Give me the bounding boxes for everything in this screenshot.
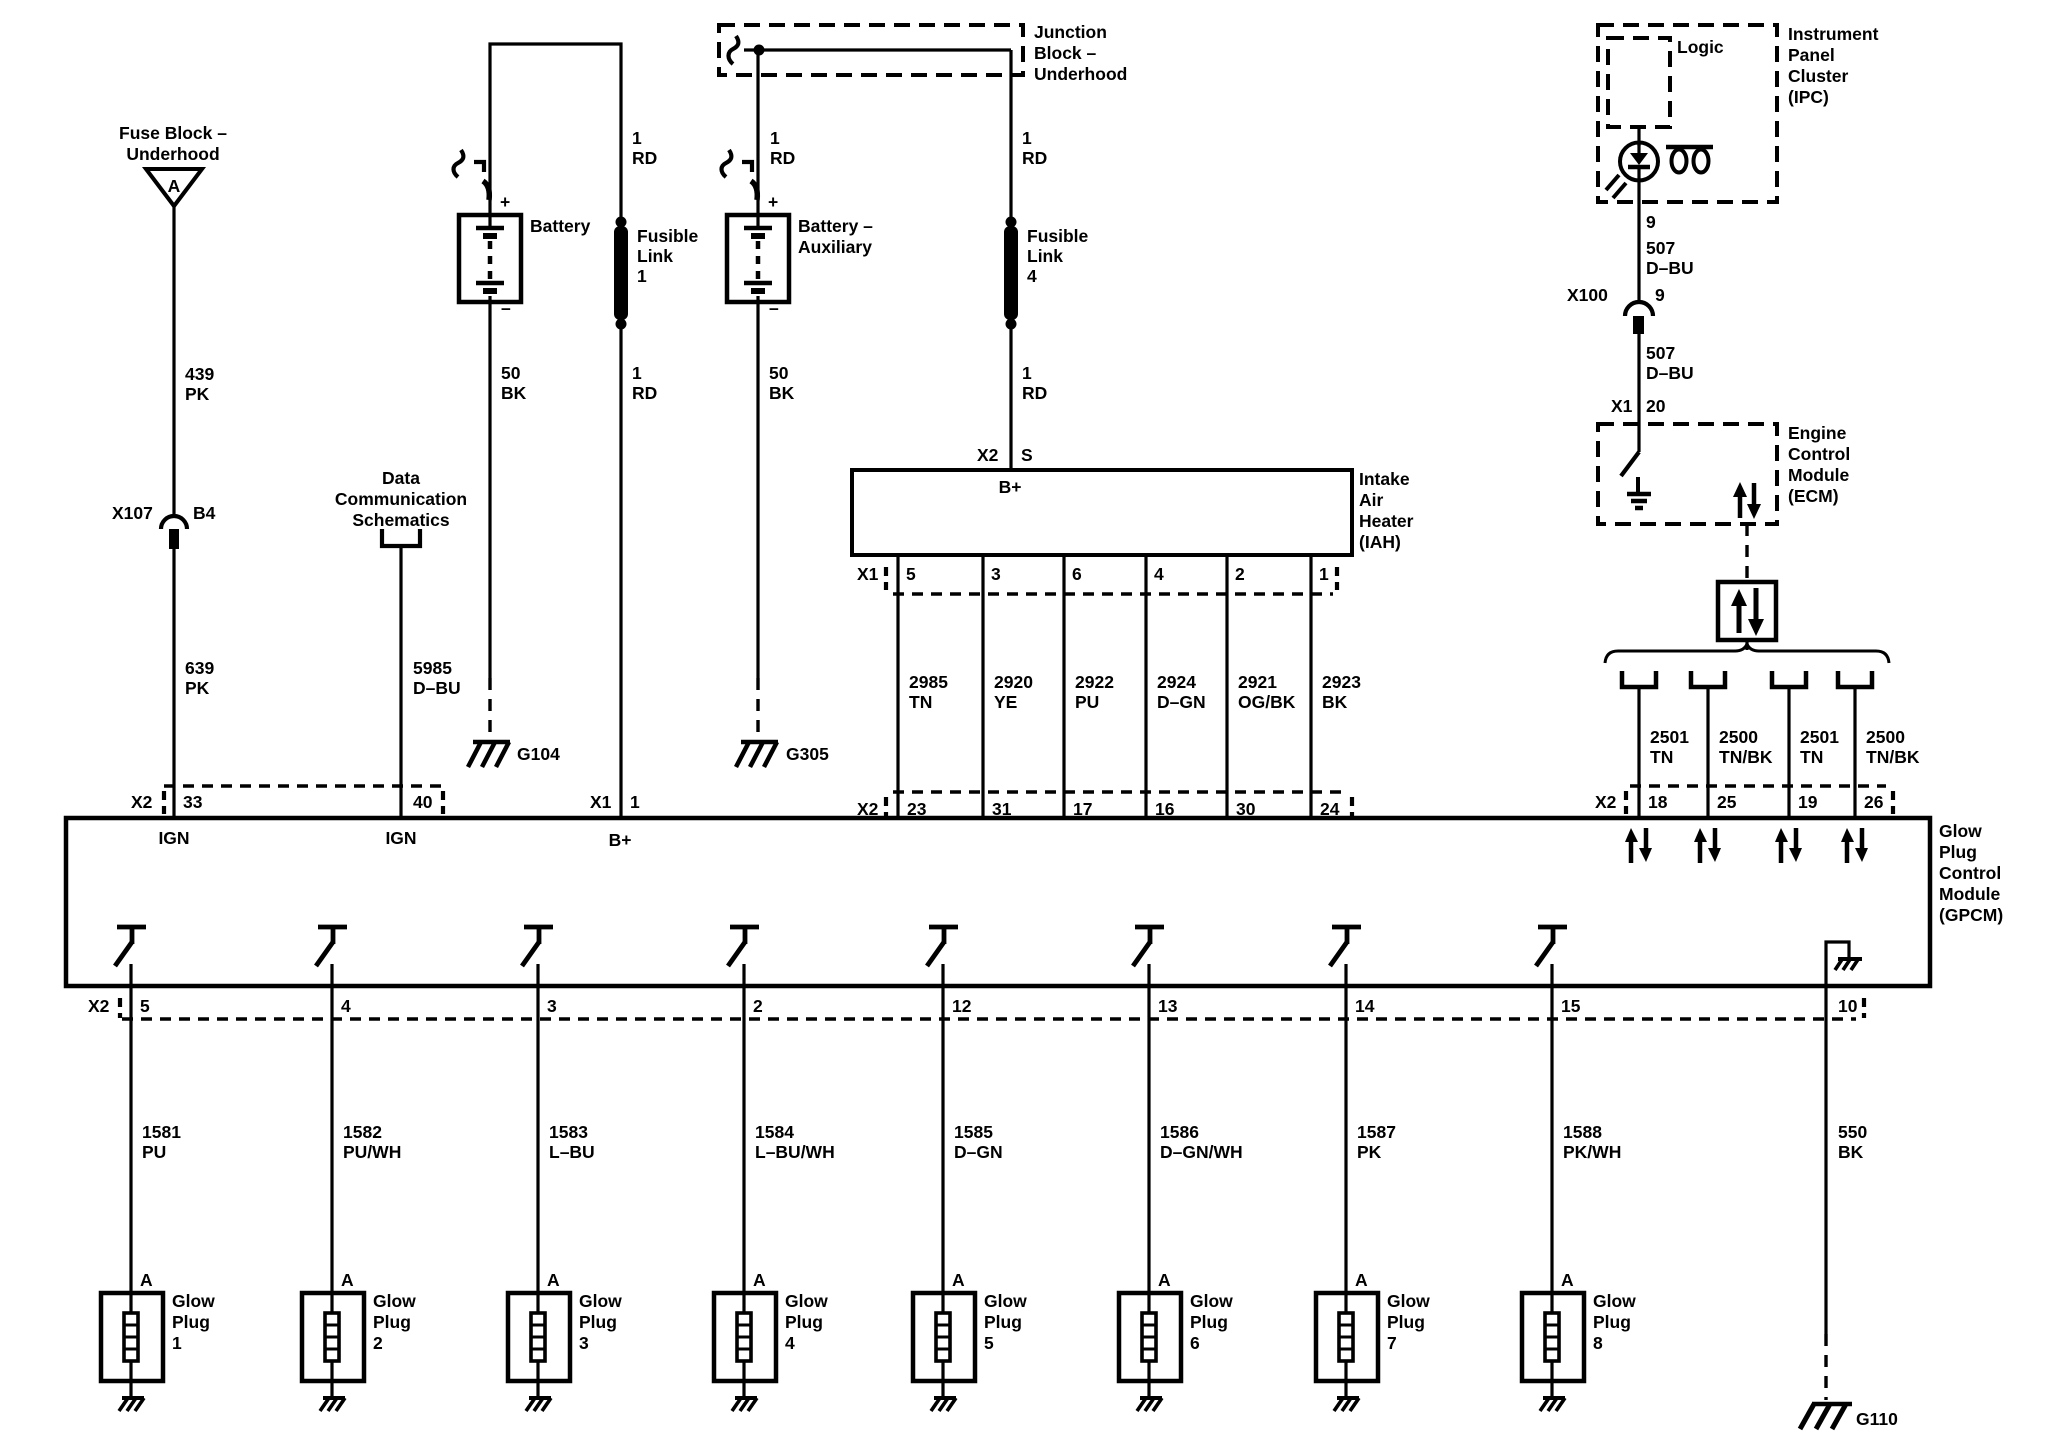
svg-text:PK: PK bbox=[185, 678, 210, 698]
serial data gateway box bbox=[1718, 582, 1776, 640]
svg-text:G104: G104 bbox=[517, 744, 560, 764]
svg-text:1: 1 bbox=[637, 266, 647, 286]
label 2500 TN/BK bbox=[1866, 727, 1920, 767]
wire 50 BK battery auxiliary negative to G305 bbox=[756, 296, 759, 739]
svg-text:5: 5 bbox=[140, 996, 150, 1016]
dashed serial data wire ECM to gateway bbox=[1745, 524, 1748, 582]
svg-text:3: 3 bbox=[547, 996, 557, 1016]
wire 2500 TN/BK to GPCM pin 26 bbox=[1853, 689, 1856, 818]
svg-text:Underhood: Underhood bbox=[1034, 64, 1127, 84]
svg-text:X107: X107 bbox=[112, 503, 153, 523]
connector terminal (serial data branch 3) bbox=[1772, 671, 1806, 687]
label Fusible Link 1 bbox=[637, 226, 699, 286]
lamp coil symbol bbox=[1666, 147, 1713, 173]
svg-text:A: A bbox=[1561, 1270, 1574, 1290]
svg-text:Glow: Glow bbox=[172, 1291, 215, 1311]
wire 2923 BK from IAH pin 1 to GPCM pin 24 bbox=[1309, 555, 1312, 818]
svg-text:D–GN: D–GN bbox=[954, 1142, 1003, 1162]
svg-text:Instrument: Instrument bbox=[1788, 24, 1879, 44]
wire 507 D-BU lamp to X100 bbox=[1637, 181, 1640, 303]
label 2501 TN bbox=[1650, 727, 1689, 767]
wire gateway to brace bbox=[1745, 640, 1748, 650]
label 1 RD (above fusible link 4) bbox=[1022, 128, 1047, 168]
switch (GPCM glow plug driver 4) bbox=[728, 927, 759, 986]
svg-text:B+: B+ bbox=[609, 830, 632, 850]
svg-text:S: S bbox=[1021, 445, 1033, 465]
svg-text:IGN: IGN bbox=[158, 828, 189, 848]
svg-text:Schematics: Schematics bbox=[352, 510, 450, 530]
svg-text:RD: RD bbox=[1022, 383, 1047, 403]
glow plug 2 bbox=[302, 1293, 364, 1397]
svg-text:13: 13 bbox=[1158, 996, 1178, 1016]
label 2920 YE bbox=[994, 672, 1033, 712]
svg-text:Link: Link bbox=[1027, 246, 1063, 266]
svg-text:20: 20 bbox=[1646, 396, 1666, 416]
svg-text:Plug: Plug bbox=[984, 1312, 1022, 1332]
wire 2501 TN to GPCM pin 19 bbox=[1787, 689, 1790, 818]
svg-text:X2: X2 bbox=[977, 445, 999, 465]
svg-text:18: 18 bbox=[1648, 792, 1668, 812]
label 1585 D–GN bbox=[954, 1122, 1003, 1162]
svg-text:YE: YE bbox=[994, 692, 1017, 712]
label 439 PK bbox=[185, 364, 214, 404]
svg-text:50: 50 bbox=[501, 363, 521, 383]
svg-text:7: 7 bbox=[1387, 1333, 1397, 1353]
svg-text:2924: 2924 bbox=[1157, 672, 1196, 692]
svg-text:1587: 1587 bbox=[1357, 1122, 1396, 1142]
engine control module ECM (dashed box) bbox=[1598, 424, 1777, 524]
label 50 BK bbox=[501, 363, 527, 403]
label Glow Plug 1 bbox=[172, 1291, 215, 1353]
svg-text:Control: Control bbox=[1788, 444, 1850, 464]
svg-text:Glow: Glow bbox=[1387, 1291, 1430, 1311]
svg-text:1: 1 bbox=[172, 1333, 182, 1353]
svg-text:550: 550 bbox=[1838, 1122, 1867, 1142]
fuse block label Fuse Block - Underhood bbox=[119, 123, 227, 164]
ground (glow plug 2) bbox=[320, 1398, 345, 1411]
label Engine Control Module (ECM) bbox=[1788, 423, 1850, 506]
label Glow Plug 3 bbox=[579, 1291, 622, 1353]
serial data arrows inside GPCM (pin 26) bbox=[1841, 828, 1868, 863]
svg-text:639: 639 bbox=[185, 658, 214, 678]
serial data arrows inside GPCM (pin 19) bbox=[1775, 828, 1802, 863]
battery auxiliary plates symbol bbox=[744, 228, 772, 291]
label Fusible Link 4 bbox=[1027, 226, 1089, 286]
svg-text:3: 3 bbox=[579, 1333, 589, 1353]
label 639 PK bbox=[185, 658, 214, 698]
battery B1 plates symbol bbox=[476, 228, 504, 291]
svg-text:1: 1 bbox=[632, 363, 642, 383]
junction block terminal curl bbox=[729, 36, 739, 64]
logic module (dashed box) bbox=[1608, 38, 1670, 127]
label Glow Plug 7 bbox=[1387, 1291, 1430, 1353]
label Glow Plug 4 bbox=[785, 1291, 828, 1353]
svg-text:A: A bbox=[168, 176, 181, 196]
svg-text:Intake: Intake bbox=[1359, 469, 1410, 489]
label Glow Plug 2 bbox=[373, 1291, 416, 1353]
svg-text:TN: TN bbox=[1800, 747, 1823, 767]
svg-text:Fuse Block –: Fuse Block – bbox=[119, 123, 227, 143]
svg-text:X2: X2 bbox=[131, 792, 153, 812]
svg-text:Data: Data bbox=[382, 468, 420, 488]
chassis ground (GPCM internal) bbox=[1835, 958, 1862, 970]
wire pin 10 to internal chassis ground bbox=[1826, 942, 1849, 986]
brace (bus split) bbox=[1605, 644, 1889, 663]
svg-text:4: 4 bbox=[1154, 564, 1164, 584]
serial data arrows inside GPCM (pin 25) bbox=[1694, 828, 1721, 863]
wire logic to indicator lamp bbox=[1637, 127, 1640, 146]
svg-text:PU: PU bbox=[142, 1142, 166, 1162]
wire 5985 D-BU to GPCM pin 40 bbox=[399, 546, 402, 818]
label 1 RD (above fusible link 1) bbox=[632, 128, 657, 168]
svg-text:Plug: Plug bbox=[1190, 1312, 1228, 1332]
svg-text:Glow: Glow bbox=[785, 1291, 828, 1311]
svg-text:RD: RD bbox=[1022, 148, 1047, 168]
label 2924 D–GN bbox=[1157, 672, 1206, 712]
wire 50 BK battery negative to G104 bbox=[488, 296, 491, 739]
label 2500 TN/BK bbox=[1719, 727, 1773, 767]
connector terminal (serial data branch 4) bbox=[1838, 671, 1872, 687]
svg-text:6: 6 bbox=[1190, 1333, 1200, 1353]
svg-text:19: 19 bbox=[1798, 792, 1818, 812]
svg-text:(ECM): (ECM) bbox=[1788, 486, 1839, 506]
svg-text:D–BU: D–BU bbox=[1646, 363, 1694, 383]
svg-text:10: 10 bbox=[1838, 996, 1858, 1016]
svg-text:Glow: Glow bbox=[373, 1291, 416, 1311]
wire 1581 PU from GPCM pin 5 to glow plug 1 bbox=[129, 986, 132, 1293]
switch (ECM internal driver) bbox=[1621, 452, 1639, 476]
svg-text:Battery: Battery bbox=[530, 216, 591, 236]
label 1581 PU bbox=[142, 1122, 181, 1162]
svg-text:1584: 1584 bbox=[755, 1122, 794, 1142]
label 1584 L–BU/WH bbox=[755, 1122, 835, 1162]
svg-text:Plug: Plug bbox=[579, 1312, 617, 1332]
svg-text:50: 50 bbox=[769, 363, 789, 383]
svg-text:9: 9 bbox=[1646, 212, 1656, 232]
svg-text:+: + bbox=[500, 192, 510, 212]
wire 507 D-BU X100 to ECM bbox=[1637, 334, 1640, 424]
wire 1582 PU/WH from GPCM pin 4 to glow plug 2 bbox=[330, 986, 333, 1293]
svg-text:1: 1 bbox=[1022, 363, 1032, 383]
battery positive terminal connector curl bbox=[454, 150, 490, 200]
svg-text:Fusible: Fusible bbox=[1027, 226, 1089, 246]
svg-text:+: + bbox=[768, 192, 778, 212]
wire 550 BK from GPCM pin 10 to G110 bbox=[1824, 986, 1827, 1400]
svg-text:4: 4 bbox=[1027, 266, 1037, 286]
svg-text:Module: Module bbox=[1939, 884, 2001, 904]
svg-text:15: 15 bbox=[1561, 996, 1581, 1016]
label 1586 D–GN/WH bbox=[1160, 1122, 1243, 1162]
ground (glow plug 1) bbox=[119, 1398, 144, 1411]
wire 2924 D–GN from IAH pin 4 to GPCM pin 16 bbox=[1144, 555, 1147, 818]
wire inside junction block bbox=[744, 48, 1011, 51]
svg-text:1: 1 bbox=[632, 128, 642, 148]
label 550 BK bbox=[1838, 1122, 1867, 1162]
ground (glow plug 5) bbox=[931, 1398, 956, 1411]
svg-text:B+: B+ bbox=[999, 477, 1022, 497]
svg-text:BK: BK bbox=[1322, 692, 1348, 712]
glow plug control module GPCM box bbox=[66, 818, 1930, 986]
switch (GPCM glow plug driver 8) bbox=[1536, 927, 1567, 986]
svg-text:Plug: Plug bbox=[373, 1312, 411, 1332]
label 2921 OG/BK bbox=[1238, 672, 1296, 712]
svg-text:(IPC): (IPC) bbox=[1788, 87, 1829, 107]
label 1 RD (below fusible link 1) bbox=[632, 363, 657, 403]
svg-text:Plug: Plug bbox=[1387, 1312, 1425, 1332]
svg-text:Air: Air bbox=[1359, 490, 1384, 510]
svg-text:1585: 1585 bbox=[954, 1122, 993, 1142]
svg-text:4: 4 bbox=[785, 1333, 795, 1353]
label 1 RD (battery auxiliary feed) bbox=[770, 128, 795, 168]
svg-text:507: 507 bbox=[1646, 343, 1675, 363]
svg-text:1: 1 bbox=[1319, 564, 1329, 584]
svg-text:2922: 2922 bbox=[1075, 672, 1114, 692]
svg-text:X1: X1 bbox=[1611, 396, 1633, 416]
label Instrument Panel Cluster (IPC) bbox=[1788, 24, 1879, 107]
glow plug 5 bbox=[913, 1293, 975, 1397]
ground (glow plug 3) bbox=[526, 1398, 551, 1411]
label 507 D-BU (upper) bbox=[1646, 238, 1694, 278]
svg-text:Glow: Glow bbox=[984, 1291, 1027, 1311]
junction block - underhood (dashed box) bbox=[719, 25, 1023, 75]
switch (GPCM glow plug driver 6) bbox=[1133, 927, 1164, 986]
svg-text:–: – bbox=[769, 298, 779, 318]
label 1587 PK bbox=[1357, 1122, 1396, 1162]
connector label X1 pin 20 (ECM) bbox=[1611, 396, 1666, 416]
glow plug 4 bbox=[714, 1293, 776, 1397]
svg-text:2920: 2920 bbox=[994, 672, 1033, 692]
svg-text:Glow: Glow bbox=[579, 1291, 622, 1311]
wire bridge battery positive to fusible link 1 (1 RD) bbox=[490, 44, 621, 228]
label Junction Block - Underhood bbox=[1034, 22, 1127, 84]
off-page reference bracket bbox=[382, 529, 420, 546]
svg-text:Plug: Plug bbox=[1939, 842, 1977, 862]
svg-text:2: 2 bbox=[1235, 564, 1245, 584]
svg-text:8: 8 bbox=[1593, 1333, 1603, 1353]
svg-text:1583: 1583 bbox=[549, 1122, 588, 1142]
wire 2921 OG/BK from IAH pin 2 to GPCM pin 30 bbox=[1225, 555, 1228, 818]
svg-text:1: 1 bbox=[1022, 128, 1032, 148]
svg-text:1: 1 bbox=[630, 792, 640, 812]
indicator lamp (wait to start lamp) bbox=[1606, 143, 1658, 199]
glow plug 3 bbox=[508, 1293, 570, 1397]
svg-text:439: 439 bbox=[185, 364, 214, 384]
svg-text:Link: Link bbox=[637, 246, 673, 266]
label 2923 BK bbox=[1322, 672, 1361, 712]
svg-text:507: 507 bbox=[1646, 238, 1675, 258]
battery auxiliary positive terminal curl bbox=[722, 150, 758, 200]
connector terminal (serial data branch 1) bbox=[1622, 671, 1656, 687]
svg-text:2500: 2500 bbox=[1866, 727, 1905, 747]
label 50 BK (auxiliary) bbox=[769, 363, 795, 403]
svg-text:5: 5 bbox=[906, 564, 916, 584]
svg-text:Plug: Plug bbox=[172, 1312, 210, 1332]
ground (glow plug 7) bbox=[1334, 1398, 1359, 1411]
junction dot (battery auxiliary tap) bbox=[754, 45, 765, 56]
svg-text:1588: 1588 bbox=[1563, 1122, 1602, 1142]
connector X2 row of GPCM (left): dashed row bbox=[164, 786, 443, 814]
wire 1584 L–BU/WH from GPCM pin 2 to glow plug 4 bbox=[742, 986, 745, 1293]
label 2501 TN bbox=[1800, 727, 1839, 767]
svg-text:Fusible: Fusible bbox=[637, 226, 699, 246]
svg-text:IGN: IGN bbox=[385, 828, 416, 848]
svg-text:5985: 5985 bbox=[413, 658, 452, 678]
svg-text:25: 25 bbox=[1717, 792, 1737, 812]
svg-text:2: 2 bbox=[753, 996, 763, 1016]
wire 1587 PK from GPCM pin 14 to glow plug 7 bbox=[1344, 986, 1347, 1293]
serial data arrows inside GPCM (pin 18) bbox=[1625, 828, 1652, 863]
svg-text:5: 5 bbox=[984, 1333, 994, 1353]
ground G110 bbox=[1800, 1404, 1852, 1429]
wire 1588 PK/WH from GPCM pin 15 to glow plug 8 bbox=[1550, 986, 1553, 1293]
svg-text:2501: 2501 bbox=[1800, 727, 1839, 747]
connector terminal (serial data branch 2) bbox=[1691, 671, 1725, 687]
label 2985 TN bbox=[909, 672, 948, 712]
svg-text:Glow: Glow bbox=[1190, 1291, 1233, 1311]
ground (glow plug 8) bbox=[1540, 1398, 1565, 1411]
svg-text:A: A bbox=[952, 1270, 965, 1290]
svg-text:26: 26 bbox=[1864, 792, 1884, 812]
label 5985 D-BU bbox=[413, 658, 461, 698]
battery auxiliary box bbox=[727, 215, 789, 302]
ground (glow plug 6) bbox=[1137, 1398, 1162, 1411]
svg-text:Plug: Plug bbox=[785, 1312, 823, 1332]
svg-text:3: 3 bbox=[991, 564, 1001, 584]
svg-text:A: A bbox=[1158, 1270, 1171, 1290]
svg-text:X2: X2 bbox=[88, 996, 110, 1016]
svg-text:4: 4 bbox=[341, 996, 351, 1016]
label Glow Plug 8 bbox=[1593, 1291, 1636, 1353]
svg-text:X1: X1 bbox=[590, 792, 612, 812]
connector label X2 pin S bbox=[977, 445, 1033, 465]
svg-text:D–GN/WH: D–GN/WH bbox=[1160, 1142, 1243, 1162]
svg-text:1: 1 bbox=[770, 128, 780, 148]
svg-text:RD: RD bbox=[632, 383, 657, 403]
svg-text:BK: BK bbox=[501, 383, 527, 403]
svg-text:PK/WH: PK/WH bbox=[1563, 1142, 1621, 1162]
svg-text:Communication: Communication bbox=[335, 489, 467, 509]
svg-text:12: 12 bbox=[952, 996, 972, 1016]
svg-text:Block –: Block – bbox=[1034, 43, 1097, 63]
svg-text:PK: PK bbox=[1357, 1142, 1382, 1162]
svg-text:Logic: Logic bbox=[1677, 37, 1724, 57]
svg-text:Heater: Heater bbox=[1359, 511, 1414, 531]
label Glow Plug 6 bbox=[1190, 1291, 1233, 1353]
svg-text:G110: G110 bbox=[1856, 1409, 1898, 1429]
battery B1 box bbox=[459, 215, 521, 302]
ground G305 bbox=[736, 742, 778, 767]
svg-text:Battery –: Battery – bbox=[798, 216, 873, 236]
svg-text:(GPCM): (GPCM) bbox=[1939, 905, 2003, 925]
connector X2 row of GPCM (bottom): dashed row bbox=[120, 998, 1864, 1019]
wire 439 PK from fuse block to X107 bbox=[172, 206, 175, 517]
svg-text:TN: TN bbox=[1650, 747, 1673, 767]
svg-text:Underhood: Underhood bbox=[126, 144, 219, 164]
glow plug 7 bbox=[1316, 1293, 1378, 1397]
wire 2985 TN from IAH pin 5 to GPCM pin 23 bbox=[896, 555, 899, 818]
label Glow Plug 5 bbox=[984, 1291, 1027, 1353]
svg-text:TN/BK: TN/BK bbox=[1719, 747, 1773, 767]
label 1588 PK/WH bbox=[1563, 1122, 1621, 1162]
svg-text:1581: 1581 bbox=[142, 1122, 181, 1142]
svg-text:2921: 2921 bbox=[1238, 672, 1277, 692]
svg-text:40: 40 bbox=[413, 792, 433, 812]
switch (GPCM glow plug driver 5) bbox=[927, 927, 958, 986]
glow plug 6 bbox=[1119, 1293, 1181, 1397]
svg-text:Junction: Junction bbox=[1034, 22, 1107, 42]
svg-text:L–BU: L–BU bbox=[549, 1142, 595, 1162]
serial data arrows (gateway) bbox=[1731, 588, 1764, 636]
label 507 D-BU (lower) bbox=[1646, 343, 1694, 383]
svg-text:14: 14 bbox=[1355, 996, 1375, 1016]
wire junction block to battery auxiliary (1 RD) bbox=[756, 50, 759, 228]
label Battery - Auxiliary bbox=[798, 216, 873, 257]
svg-text:Glow: Glow bbox=[1939, 821, 1982, 841]
wire 2922 PU from IAH pin 6 to GPCM pin 17 bbox=[1062, 555, 1065, 818]
svg-text:2500: 2500 bbox=[1719, 727, 1758, 747]
svg-text:G305: G305 bbox=[786, 744, 829, 764]
wire 2920 YE from IAH pin 3 to GPCM pin 31 bbox=[981, 555, 984, 818]
connector X2 row of GPCM (IAH side): dashed row bbox=[886, 792, 1352, 820]
svg-text:9: 9 bbox=[1655, 285, 1665, 305]
svg-text:Panel: Panel bbox=[1788, 45, 1835, 65]
connector X100 pin 9 bbox=[1625, 302, 1653, 334]
svg-text:BK: BK bbox=[769, 383, 795, 403]
instrument panel cluster IPC (dashed box) bbox=[1598, 25, 1777, 202]
svg-text:D–BU: D–BU bbox=[413, 678, 461, 698]
wire ECM input bbox=[1637, 424, 1640, 452]
fusible link 1 bbox=[614, 217, 628, 330]
svg-text:A: A bbox=[140, 1270, 153, 1290]
earth ground (ECM internal) bbox=[1627, 477, 1651, 508]
ground G104 bbox=[468, 742, 510, 767]
label 2922 PU bbox=[1075, 672, 1114, 712]
connector X107 pin B4 bbox=[161, 516, 187, 549]
svg-text:TN: TN bbox=[909, 692, 932, 712]
svg-text:33: 33 bbox=[183, 792, 203, 812]
svg-text:Engine: Engine bbox=[1788, 423, 1847, 443]
svg-text:–: – bbox=[501, 298, 511, 318]
switch (GPCM glow plug driver 2) bbox=[316, 927, 347, 986]
wire 1583 L–BU from GPCM pin 3 to glow plug 3 bbox=[536, 986, 539, 1293]
connector X1 row of IAH: dashed row bbox=[886, 567, 1337, 594]
svg-text:Glow: Glow bbox=[1593, 1291, 1636, 1311]
wire junction block to fusible link 4 (1 RD) bbox=[1009, 50, 1012, 218]
svg-text:L–BU/WH: L–BU/WH bbox=[755, 1142, 835, 1162]
svg-text:Plug: Plug bbox=[1593, 1312, 1631, 1332]
label 1582 PU/WH bbox=[343, 1122, 401, 1162]
label Glow Plug Control Module (GPCM) bbox=[1939, 821, 2003, 925]
svg-text:X1: X1 bbox=[857, 564, 879, 584]
connector X2 row of GPCM (serial side): dashed row bbox=[1626, 786, 1893, 814]
svg-text:X100: X100 bbox=[1567, 285, 1608, 305]
svg-text:6: 6 bbox=[1072, 564, 1082, 584]
svg-text:2501: 2501 bbox=[1650, 727, 1689, 747]
svg-text:Module: Module bbox=[1788, 465, 1850, 485]
wire 1 RD fusible link 1 to GPCM pin X1-1 bbox=[619, 328, 622, 818]
switch (GPCM glow plug driver 7) bbox=[1330, 927, 1361, 986]
svg-text:A: A bbox=[341, 1270, 354, 1290]
intake air heater IAH box bbox=[852, 470, 1352, 555]
svg-text:1586: 1586 bbox=[1160, 1122, 1199, 1142]
svg-text:TN/BK: TN/BK bbox=[1866, 747, 1920, 767]
svg-text:D–GN: D–GN bbox=[1157, 692, 1206, 712]
svg-text:Auxiliary: Auxiliary bbox=[798, 237, 872, 257]
svg-text:(IAH): (IAH) bbox=[1359, 532, 1401, 552]
svg-text:X2: X2 bbox=[1595, 792, 1617, 812]
svg-text:PU: PU bbox=[1075, 692, 1099, 712]
svg-text:2923: 2923 bbox=[1322, 672, 1361, 692]
